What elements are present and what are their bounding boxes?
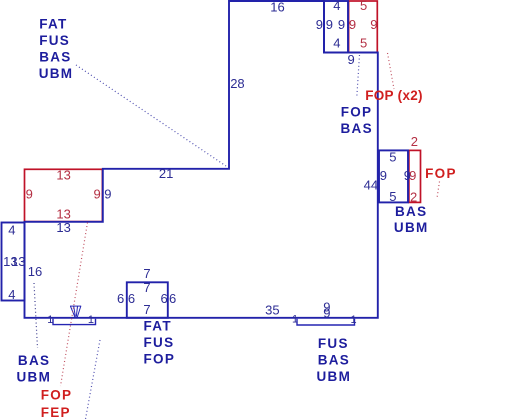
svg-text:1: 1	[292, 314, 298, 326]
svg-text:9: 9	[94, 187, 101, 202]
svg-text:9: 9	[349, 17, 356, 32]
svg-text:UBM: UBM	[394, 220, 429, 235]
svg-text:35: 35	[265, 303, 279, 318]
svg-text:BAS: BAS	[39, 49, 71, 64]
svg-text:7: 7	[143, 302, 150, 317]
svg-text:FEP: FEP	[41, 405, 71, 419]
svg-text:1: 1	[351, 314, 357, 326]
svg-text:FOP (x2): FOP (x2)	[365, 88, 423, 103]
svg-text:9: 9	[26, 187, 33, 202]
svg-text:13: 13	[56, 206, 70, 221]
svg-text:2: 2	[411, 134, 418, 149]
svg-text:7: 7	[143, 280, 150, 295]
svg-text:FUS: FUS	[144, 335, 175, 350]
svg-text:6: 6	[117, 291, 124, 306]
svg-text:9: 9	[104, 187, 111, 202]
svg-text:BAS: BAS	[341, 121, 373, 136]
svg-text:9: 9	[370, 17, 377, 32]
svg-text:5: 5	[389, 149, 396, 164]
svg-text:5: 5	[360, 36, 367, 51]
svg-text:21: 21	[159, 166, 173, 181]
svg-text:9: 9	[348, 52, 355, 67]
svg-text:FOP: FOP	[425, 166, 457, 181]
svg-text:FUS: FUS	[318, 336, 349, 351]
svg-text:9: 9	[323, 306, 330, 321]
svg-text:9: 9	[316, 17, 323, 32]
svg-text:13: 13	[56, 168, 70, 183]
svg-text:4: 4	[8, 287, 15, 302]
svg-text:9: 9	[326, 17, 333, 32]
svg-text:6: 6	[128, 291, 135, 306]
svg-text:BAS: BAS	[395, 204, 427, 219]
svg-text:9: 9	[380, 168, 387, 183]
svg-text:4: 4	[8, 222, 15, 237]
svg-text:FUS: FUS	[39, 33, 70, 48]
svg-text:5: 5	[389, 189, 396, 204]
svg-text:1: 1	[88, 314, 94, 326]
svg-text:6: 6	[161, 291, 168, 306]
svg-text:2: 2	[410, 190, 417, 205]
svg-text:9: 9	[409, 168, 416, 183]
svg-text:UBM: UBM	[17, 370, 52, 385]
svg-text:FOP: FOP	[341, 105, 373, 120]
svg-text:UBM: UBM	[39, 66, 74, 81]
svg-text:13: 13	[11, 254, 25, 269]
svg-text:FAT: FAT	[39, 16, 67, 31]
svg-text:BAS: BAS	[18, 353, 50, 368]
svg-text:BAS: BAS	[318, 353, 350, 368]
svg-text:7: 7	[143, 266, 150, 281]
svg-text:FOP: FOP	[41, 388, 73, 403]
svg-text:4: 4	[333, 0, 340, 13]
svg-text:4: 4	[333, 36, 340, 51]
svg-text:5: 5	[360, 0, 367, 13]
svg-text:9: 9	[338, 17, 345, 32]
svg-text:FAT: FAT	[144, 319, 172, 334]
svg-text:44: 44	[364, 177, 378, 192]
svg-text:16: 16	[28, 264, 42, 279]
svg-text:6: 6	[169, 291, 176, 306]
svg-text:1: 1	[47, 314, 53, 326]
svg-text:28: 28	[230, 76, 244, 91]
svg-text:FOP: FOP	[144, 352, 176, 367]
svg-text:16: 16	[270, 0, 284, 14]
svg-text:13: 13	[56, 220, 70, 235]
svg-text:UBM: UBM	[317, 369, 352, 384]
